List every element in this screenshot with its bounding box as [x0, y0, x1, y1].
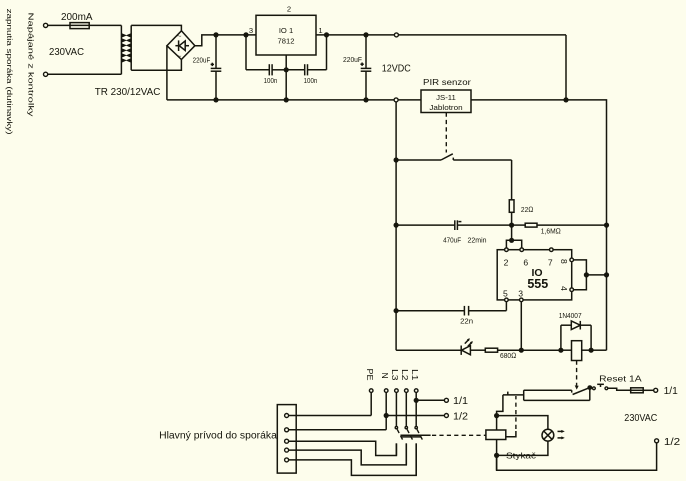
- junction dot stykac top node: [494, 413, 499, 418]
- capacitor C6 22n pin5: [396, 302, 506, 326]
- junction dot 12V node: [563, 97, 568, 102]
- junction dot pin3: [243, 32, 248, 37]
- svg-text:zapnutia sporáka (dutinavky): zapnutia sporáka (dutinavky): [5, 9, 14, 135]
- terminal 1/1 right: [654, 388, 658, 392]
- svg-text:~: ~: [177, 51, 182, 60]
- wire gnd corner to LED line: [396, 349, 461, 351]
- svg-text:3: 3: [249, 26, 253, 35]
- wire L1 to 1/1: [416, 399, 444, 401]
- terminal input top: [44, 23, 48, 27]
- junction dot gnd/C1: [213, 97, 218, 102]
- relay coil K1: [561, 341, 607, 361]
- junction dot gnd/C2: [363, 97, 368, 102]
- contact L1: [415, 392, 424, 475]
- wire pin3 down: [520, 302, 522, 351]
- junction dot gnd/C6: [394, 308, 399, 313]
- bridge rectifier B1: [167, 31, 195, 61]
- junction dot contact pivot: [587, 385, 592, 390]
- wire 12V to right rail: [566, 100, 607, 350]
- resistor R2 1,6MR: [512, 223, 607, 235]
- svg-text:22n: 22n: [460, 316, 473, 325]
- svg-text:1/1: 1/1: [664, 386, 679, 397]
- capacitor C4 100n: [286, 35, 326, 85]
- wire pins 8,4 tie: [574, 260, 607, 290]
- lamp with X: [542, 429, 565, 441]
- svg-text:5: 5: [503, 289, 508, 299]
- terminal N: [384, 389, 388, 393]
- svg-text:2: 2: [287, 5, 291, 14]
- wire secondary top to bridge: [131, 25, 181, 30]
- svg-text:470uF: 470uF: [443, 236, 461, 245]
- contact L2: [405, 392, 414, 465]
- wire N to 1/2: [386, 415, 444, 417]
- junction dot R1/C5 node: [509, 223, 514, 228]
- terminal 1/1 mid: [444, 398, 448, 402]
- svg-text:4: 4: [559, 286, 569, 291]
- svg-text:Jablotron: Jablotron: [429, 103, 462, 112]
- svg-text:1N4007: 1N4007: [559, 313, 582, 320]
- terminal PE: [369, 389, 373, 393]
- svg-text:1/2: 1/2: [664, 437, 681, 448]
- wire node to lamp top: [497, 416, 548, 430]
- wire LED to R3: [470, 349, 485, 351]
- wire lamp bottom: [497, 441, 548, 455]
- wire 7812 gnd pin2: [285, 55, 287, 100]
- junction dot 8-4 tie: [584, 272, 589, 277]
- wire 1/2 to stykac bottom: [497, 443, 657, 470]
- terminal block sporak: [277, 405, 296, 474]
- pin circle 6: [520, 248, 524, 252]
- connector circle gnd rail: [394, 98, 398, 102]
- svg-text:7812: 7812: [278, 37, 295, 46]
- capacitor C3 100n: [246, 35, 286, 85]
- svg-text:7: 7: [548, 258, 553, 268]
- pin circle 2: [505, 248, 509, 252]
- wire bottom input: [48, 73, 122, 75]
- wire gnd drop: [395, 102, 397, 350]
- svg-text:L1: L1: [410, 369, 420, 381]
- terminal L1: [414, 389, 418, 393]
- svg-text:JS-11: JS-11: [436, 93, 456, 102]
- junction dot pin1: [324, 32, 329, 37]
- svg-text:220uF: 220uF: [343, 55, 362, 64]
- pin circle 7: [550, 248, 554, 252]
- svg-text:PIR senzor: PIR senzor: [423, 77, 471, 87]
- terminal input bottom: [44, 72, 48, 76]
- wire top input: [48, 24, 122, 26]
- junction dot gnd/C5: [394, 223, 399, 228]
- svg-text:8: 8: [559, 259, 569, 264]
- capacitor C5 470uF: [396, 220, 512, 244]
- connector circle 12V rail: [394, 33, 398, 37]
- wire R3 to relay: [498, 349, 561, 351]
- junction dot N/1-2: [384, 413, 389, 418]
- dashed link gang bar to coil: [432, 434, 486, 436]
- PIR module JS-11 Jablotron: [421, 90, 471, 113]
- svg-text:100n: 100n: [264, 76, 278, 85]
- svg-text:22Ω: 22Ω: [521, 205, 534, 214]
- terminal 1/2 right: [655, 439, 659, 443]
- wire secondary bottom to bridge: [131, 60, 181, 71]
- svg-text:L3: L3: [390, 369, 400, 381]
- svg-text:22min: 22min: [468, 236, 487, 245]
- svg-text:680Ω: 680Ω: [500, 351, 516, 360]
- junction dot 2-6 tie: [509, 238, 514, 243]
- svg-text:1,6MΩ: 1,6MΩ: [541, 226, 561, 235]
- svg-text:PE: PE: [365, 369, 375, 381]
- junction dot gnd/pin2: [284, 97, 289, 102]
- wire PIR out to 12V junction: [471, 99, 566, 101]
- svg-text:IO 1: IO 1: [279, 26, 293, 35]
- junction dot L1/1-1: [414, 398, 419, 403]
- link contactor right up: [506, 396, 516, 437]
- wire PE: [289, 392, 372, 415]
- regulator IO1 7812: [249, 5, 323, 55]
- svg-text:1/2: 1/2: [453, 411, 468, 422]
- wire bridge - output down to gnd rail: [166, 46, 168, 100]
- svg-text:1/1: 1/1: [453, 396, 468, 407]
- svg-text:1: 1: [318, 26, 322, 35]
- junction dot rail/8-4: [604, 272, 609, 277]
- pin circle 8: [570, 258, 574, 262]
- svg-text:230VAC: 230VAC: [49, 46, 84, 58]
- terminal L3: [395, 389, 399, 393]
- terminal L2: [405, 389, 409, 393]
- push button reset: [592, 384, 631, 390]
- junction dot diode left: [558, 348, 563, 353]
- contactor coil Stykac: [486, 416, 506, 471]
- wire L1 route: [289, 443, 417, 475]
- svg-text:Napájané z kontrolky: Napájané z kontrolky: [26, 13, 35, 118]
- svg-text:Reset 1A: Reset 1A: [599, 373, 642, 383]
- svg-text:200mA: 200mA: [61, 11, 93, 23]
- pin circle 3: [520, 298, 524, 302]
- svg-text:555: 555: [527, 277, 548, 291]
- dashed link PIR to switch: [445, 113, 447, 153]
- dashed link relay to contact: [575, 361, 579, 390]
- switch S1 PIR controlled: [396, 154, 512, 160]
- fuse F2 1A: [631, 388, 654, 393]
- junction dot pin3/LED line: [519, 348, 524, 353]
- svg-text:220uF: 220uF: [193, 56, 211, 65]
- capacitor C1 220uF: [193, 35, 222, 100]
- terminal 1/2 mid: [444, 414, 448, 418]
- wire bridge + output up to rail: [195, 35, 256, 46]
- LED D2: [461, 338, 473, 355]
- svg-text:~: ~: [177, 32, 182, 41]
- wire L2 route: [289, 443, 407, 465]
- junction dot rail/C1: [213, 32, 218, 37]
- capacitor C2 220uF: [343, 35, 371, 100]
- svg-text:Stykač: Stykač: [506, 450, 537, 460]
- svg-text:N: N: [380, 373, 390, 379]
- diode D1 1N4007: [559, 313, 591, 350]
- junction dot rail/R2: [604, 223, 609, 228]
- gang bar solid: [400, 435, 430, 437]
- fuse F1 200mA: [70, 23, 89, 29]
- svg-text:12VDC: 12VDC: [382, 62, 411, 74]
- junction dot stykac bottom node: [494, 453, 499, 458]
- resistor R1 22R: [509, 200, 514, 213]
- rail 12V from pin1: [316, 34, 566, 36]
- svg-text:L2: L2: [400, 369, 410, 381]
- resistor R3 680R: [485, 348, 497, 352]
- junction dot rail/C2: [363, 32, 368, 37]
- junction dot diode right: [589, 348, 594, 353]
- svg-text:230VAC: 230VAC: [624, 412, 657, 424]
- wire N: [289, 392, 387, 429]
- svg-text:2: 2: [504, 258, 509, 268]
- wire feed from stykac node: [497, 392, 524, 416]
- svg-text:3: 3: [518, 289, 523, 299]
- timer IO 555: [497, 250, 572, 300]
- pin circle 5: [505, 298, 509, 302]
- wire node to pins 2,6: [506, 225, 521, 248]
- gnd rail: [167, 99, 421, 101]
- wire R1 to node: [511, 212, 513, 225]
- junction dot switch line: [394, 157, 399, 162]
- relay contact switch: [524, 388, 590, 401]
- svg-text:Hlavný prívod do sporáka: Hlavný prívod do sporáka: [159, 431, 277, 442]
- svg-text:6: 6: [523, 258, 528, 268]
- junction dot caps mid: [284, 67, 289, 72]
- svg-text:TR 230/12VAC: TR 230/12VAC: [95, 87, 161, 98]
- wire switch to R1: [511, 160, 513, 200]
- wire 12V rail down: [565, 35, 567, 100]
- wire L3 route: [289, 441, 397, 455]
- svg-text:100n: 100n: [304, 76, 318, 85]
- contact L3: [395, 392, 404, 455]
- pin circle 4: [570, 288, 574, 292]
- transformer TR1 230/12VAC: [121, 25, 131, 74]
